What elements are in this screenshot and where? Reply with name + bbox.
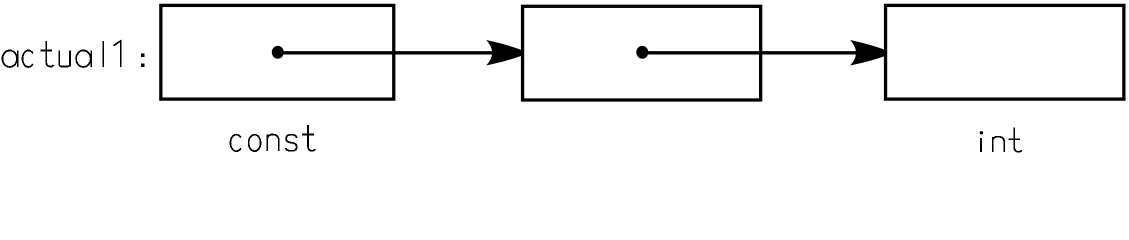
arrowhead into box 3 [850,40,885,65]
box 1 (pointer cell actual1) [161,5,394,99]
label int under box 3 [980,128,1022,153]
label const under box 1 [230,125,315,151]
label actual1: [2,41,144,67]
wire from dot1 to box 2 [277,51,500,54]
wire from dot2 to box 3 [642,51,864,54]
pointer dot node in box 2 [636,46,648,59]
pointer dot node in box 1 [272,46,284,59]
arrowhead into box 2 [486,40,521,65]
box 2 (intermediate pointer cell) [523,6,761,100]
box 3 (int cell) [886,5,1124,99]
